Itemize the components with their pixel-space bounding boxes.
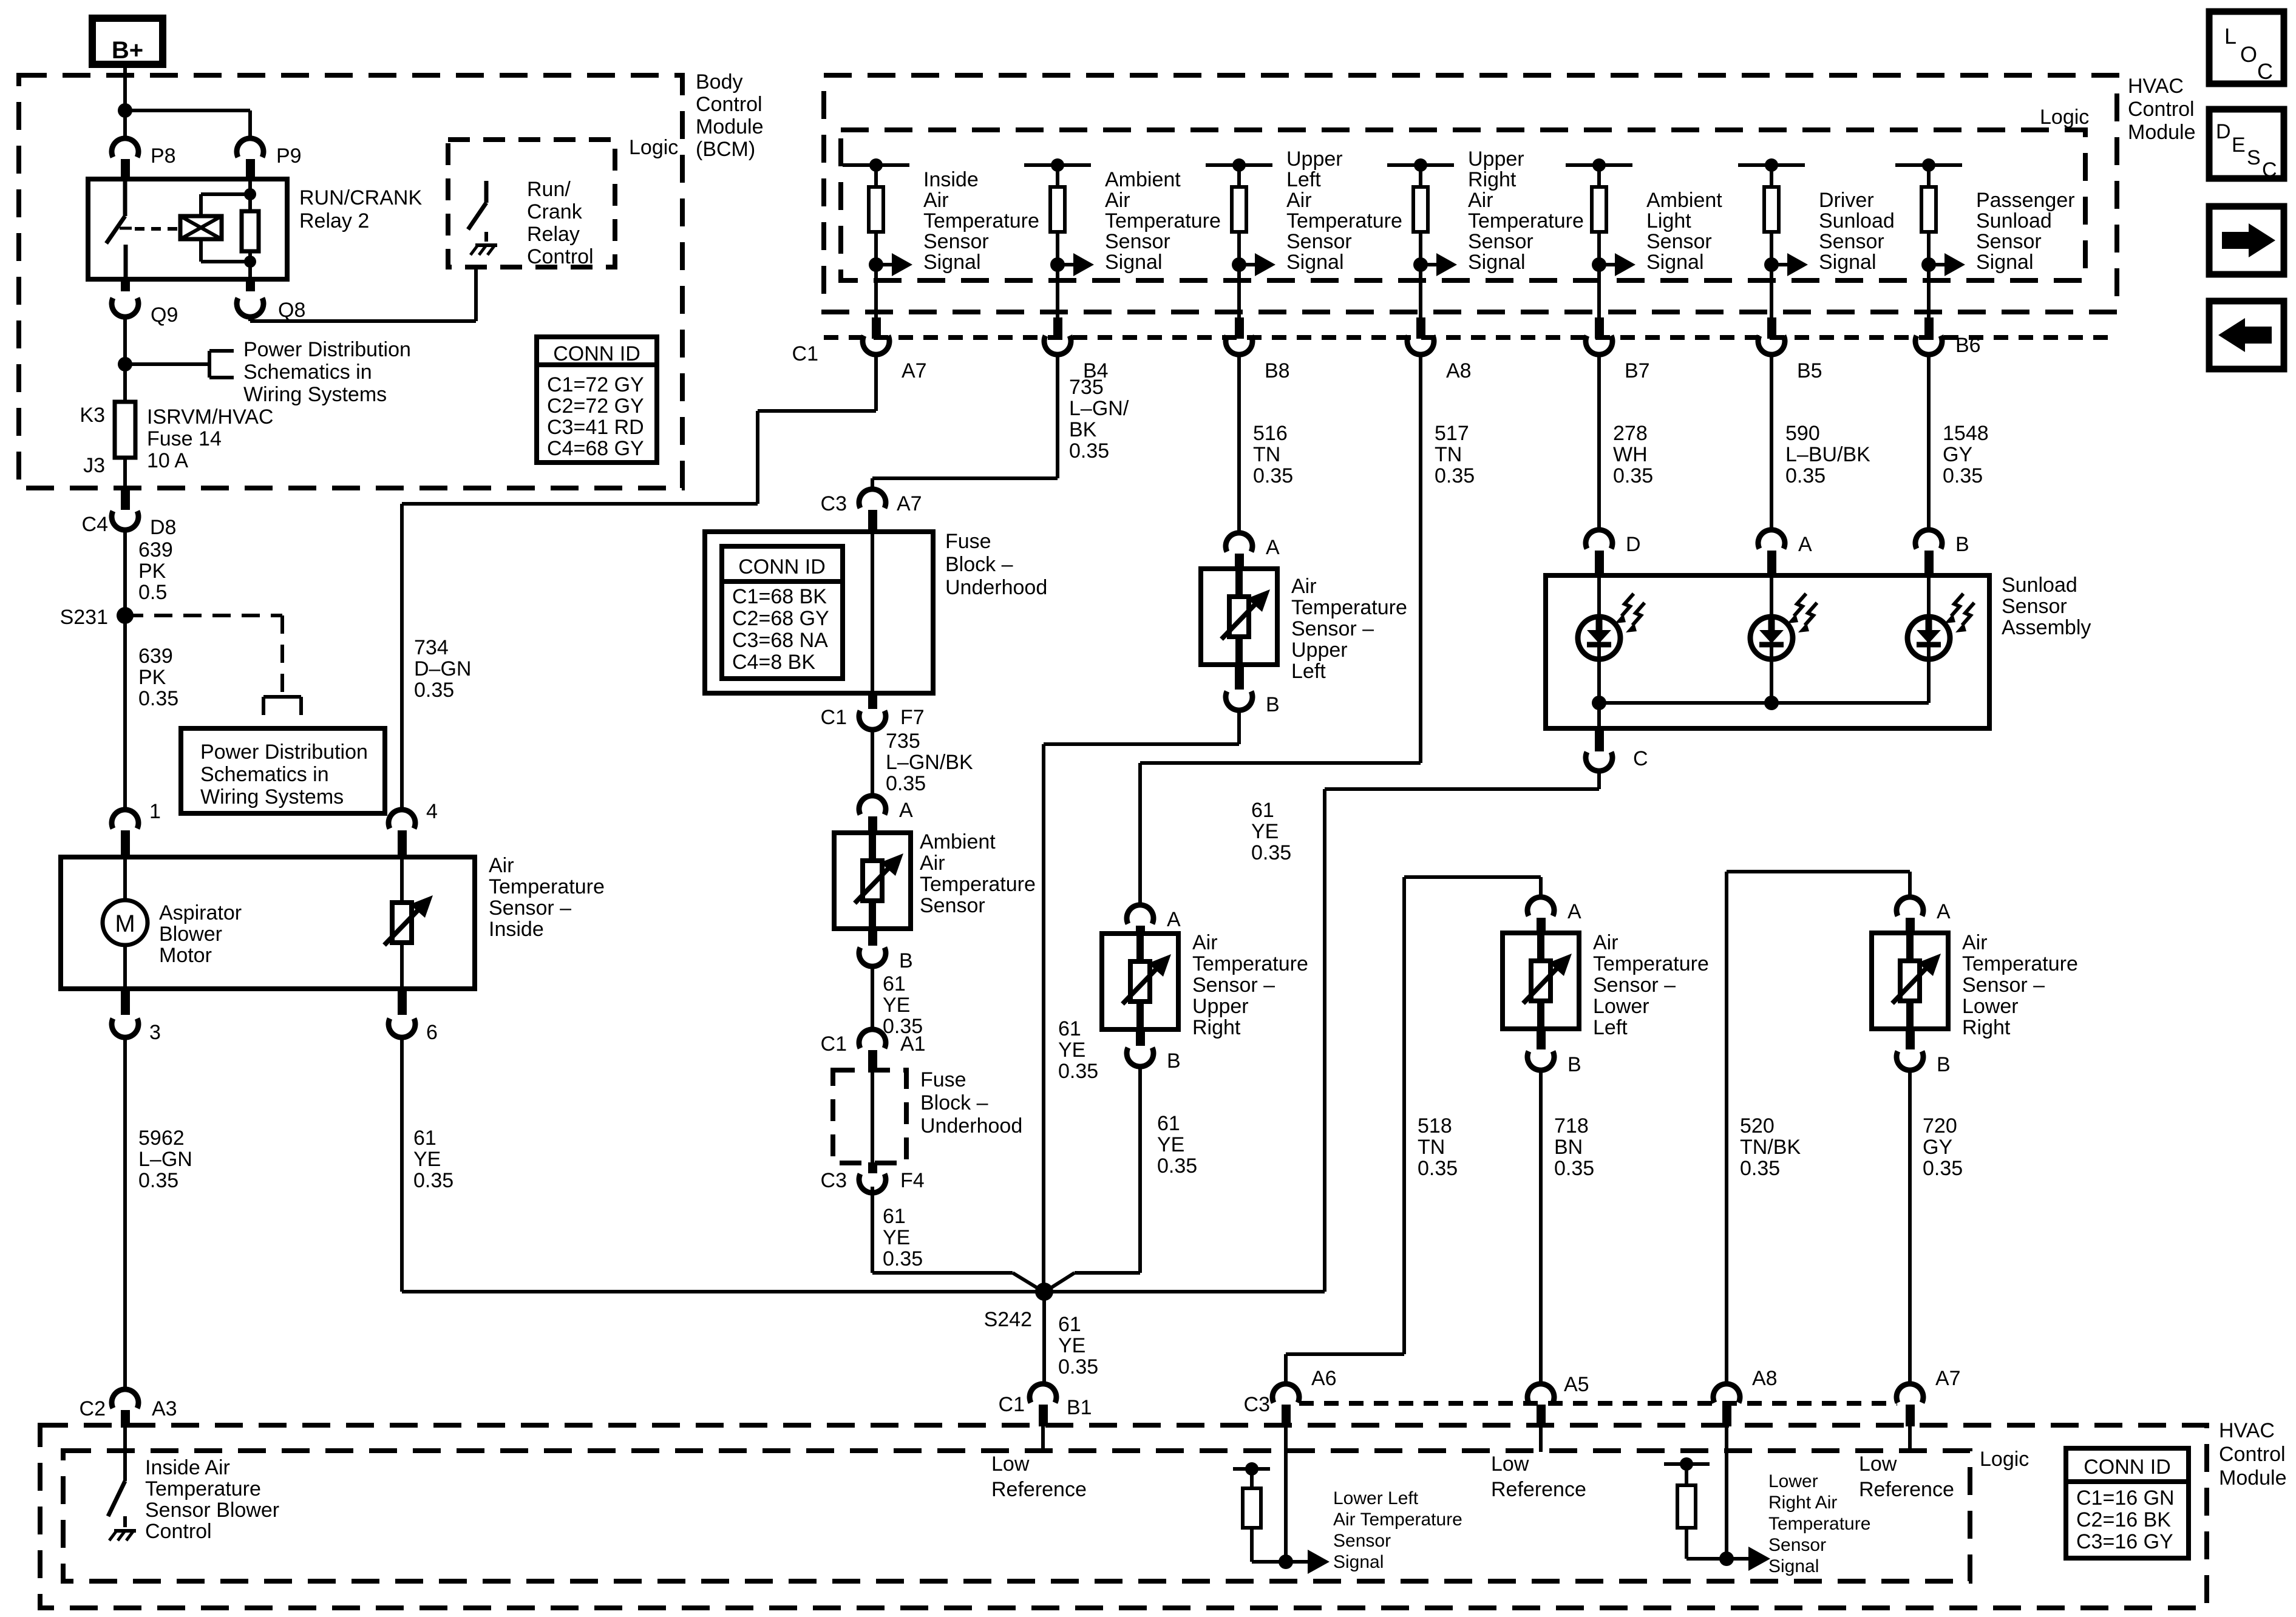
power symbol B+ <box>92 18 163 64</box>
box Aspirator Blower Motor / inside air temp sensor <box>61 857 475 989</box>
node coil top <box>244 188 256 200</box>
box Power Distribution Schematics in Wiring Systems <box>181 728 385 813</box>
svg-text:0.35: 0.35 <box>1157 1154 1197 1178</box>
node S231 <box>117 607 134 624</box>
photodiode A (driver sunload) <box>1770 577 1773 703</box>
connector A5 <box>1527 1384 1554 1403</box>
svg-text:516: 516 <box>1253 422 1288 445</box>
connector B lower-left <box>1537 1029 1546 1049</box>
node coil bottom <box>244 256 256 268</box>
svg-text:Signal: Signal <box>1768 1556 1819 1576</box>
connector A sunload <box>1758 530 1785 549</box>
svg-text:Module: Module <box>2219 1466 2287 1490</box>
svg-text:B7: B7 <box>1625 359 1650 382</box>
svg-text:Driver: Driver <box>1819 189 1874 212</box>
wire branch to P9 <box>125 109 250 112</box>
svg-text:C1=72 GY: C1=72 GY <box>547 373 644 396</box>
svg-text:518: 518 <box>1418 1114 1452 1137</box>
svg-text:B5: B5 <box>1797 359 1822 382</box>
svg-text:61: 61 <box>883 1205 906 1228</box>
HVAC logic dashed box (bottom) <box>63 1451 1970 1581</box>
svg-text:0.35: 0.35 <box>1418 1157 1458 1180</box>
connector B7 <box>1586 336 1612 354</box>
node S branch to power distribution note <box>118 357 132 371</box>
svg-text:B: B <box>1955 533 1969 556</box>
wire A7 into module <box>1908 1426 1912 1452</box>
svg-text:M: M <box>115 910 135 937</box>
svg-text:S242: S242 <box>984 1308 1032 1331</box>
svg-text:L–GN/: L–GN/ <box>1069 397 1129 420</box>
connector C1 A1 <box>859 1029 886 1048</box>
svg-text:Logic: Logic <box>1980 1448 2029 1471</box>
sensor input branch B8 <box>1206 163 1272 167</box>
svg-text:Sensor: Sensor <box>1976 230 2042 253</box>
relay K RUN/CRANK Relay 2 box <box>88 179 287 279</box>
svg-text:C2=68 GY: C2=68 GY <box>732 607 829 630</box>
svg-text:Left: Left <box>1593 1016 1628 1039</box>
svg-text:0.35: 0.35 <box>1785 464 1826 487</box>
svg-text:3: 3 <box>149 1021 161 1044</box>
connector B6 <box>1915 336 1942 354</box>
svg-text:Right: Right <box>1192 1016 1241 1039</box>
sensor input branch A7 <box>843 163 909 167</box>
svg-text:Fuse 14: Fuse 14 <box>147 427 222 450</box>
wire lower-left A to C3/A6 drop <box>1404 875 1541 879</box>
connector row (bottom) <box>1299 1401 1897 1406</box>
svg-text:Temperature: Temperature <box>1105 209 1221 232</box>
node cathode A <box>1764 696 1779 710</box>
arrow lower-left signal <box>1286 1560 1310 1564</box>
svg-text:TN: TN <box>1253 443 1280 466</box>
svg-text:TN: TN <box>1418 1136 1445 1159</box>
svg-text:J3: J3 <box>83 454 105 477</box>
wire A6 signal into module <box>1284 1426 1288 1562</box>
connector A8 <box>1407 336 1434 354</box>
svg-text:Schematics in: Schematics in <box>243 361 372 384</box>
button LOC <box>2209 12 2284 84</box>
switch Inside Air Temperature Sensor Blower Control <box>108 1481 125 1516</box>
svg-text:B8: B8 <box>1265 359 1290 382</box>
connector B upper-left <box>1235 665 1244 690</box>
svg-text:6: 6 <box>426 1021 438 1044</box>
svg-text:0.35: 0.35 <box>883 1247 923 1270</box>
svg-text:TN/BK: TN/BK <box>1740 1136 1801 1159</box>
connector C1 B1 <box>1030 1384 1056 1403</box>
svg-text:B: B <box>1167 1049 1181 1073</box>
svg-text:Reference: Reference <box>1491 1478 1586 1501</box>
svg-text:Temperature: Temperature <box>489 875 605 898</box>
svg-text:61: 61 <box>1157 1112 1180 1135</box>
svg-text:Signal: Signal <box>1333 1552 1384 1572</box>
connector pin 4 <box>389 810 415 829</box>
svg-text:639: 639 <box>138 645 173 668</box>
svg-text:10 A: 10 A <box>147 449 188 472</box>
svg-text:C3: C3 <box>821 492 847 515</box>
svg-text:0.35: 0.35 <box>1058 1060 1098 1083</box>
svg-text:F4: F4 <box>900 1169 925 1192</box>
svg-text:Signal: Signal <box>1468 251 1526 274</box>
svg-text:Left: Left <box>1291 660 1326 683</box>
svg-text:F7: F7 <box>900 706 925 729</box>
svg-text:C: C <box>2262 158 2277 181</box>
svg-text:Left: Left <box>1286 168 1321 191</box>
svg-text:GY: GY <box>1943 443 1972 466</box>
svg-text:590: 590 <box>1785 422 1820 445</box>
box Air Temperature Sensor - Lower Right with thermistor <box>1872 933 1948 1029</box>
table CONN ID (BCM) <box>537 337 657 463</box>
svg-text:Control: Control <box>2219 1443 2286 1466</box>
svg-text:Module: Module <box>696 115 764 138</box>
relay coil <box>180 216 222 239</box>
svg-text:E: E <box>2232 134 2246 157</box>
wire S242 to C1 B1 <box>1042 1292 1046 1383</box>
resistor relay internal <box>242 211 259 251</box>
wire B7 to sunload D <box>1597 356 1601 529</box>
svg-text:Sensor –: Sensor – <box>1962 974 2045 997</box>
svg-text:Passenger: Passenger <box>1976 189 2075 212</box>
node S242 <box>1035 1283 1053 1301</box>
svg-text:Temperature: Temperature <box>145 1477 261 1500</box>
svg-text:K3: K3 <box>80 404 105 427</box>
svg-text:D–GN: D–GN <box>414 657 471 680</box>
wire F4 to S242 <box>871 1187 874 1273</box>
reference bracket S231 <box>263 695 301 699</box>
wire through lower fuse block <box>871 1071 874 1162</box>
sensor input branch B4 <box>1024 163 1091 167</box>
svg-text:Ambient: Ambient <box>1105 168 1181 191</box>
svg-text:Underhood: Underhood <box>945 576 1047 599</box>
svg-text:0.35: 0.35 <box>1058 1355 1098 1378</box>
connector B5 <box>1758 336 1785 354</box>
node lower-left signal <box>1279 1554 1293 1569</box>
svg-text:GY: GY <box>1923 1136 1952 1159</box>
svg-text:0.35: 0.35 <box>1554 1157 1594 1180</box>
wire S231 to pin 1 <box>123 615 127 810</box>
wire F7 to ambient sensor A <box>871 731 874 795</box>
svg-text:CONN ID: CONN ID <box>553 342 640 365</box>
wire sunload C to S242 <box>1597 772 1601 789</box>
svg-text:734: 734 <box>414 636 449 659</box>
svg-text:Sensor –: Sensor – <box>1593 974 1676 997</box>
svg-text:0.35: 0.35 <box>886 772 926 795</box>
thermistor inside air temperature sensor <box>400 857 404 989</box>
svg-text:RUN/CRANK: RUN/CRANK <box>299 186 422 209</box>
svg-text:B: B <box>1937 1053 1951 1076</box>
svg-text:Upper: Upper <box>1468 147 1524 171</box>
wire C4 to S231 <box>123 531 127 619</box>
svg-text:Sensor: Sensor <box>923 230 989 253</box>
wire A7 inside-air signal to sensor pin 4 <box>874 356 878 411</box>
svg-text:Air: Air <box>923 189 949 212</box>
svg-text:Block –: Block – <box>920 1091 988 1114</box>
svg-text:C3: C3 <box>821 1169 847 1192</box>
wire label 516 already above; connector A upper-left <box>1226 533 1252 552</box>
svg-text:HVAC: HVAC <box>2128 75 2184 98</box>
svg-text:61: 61 <box>413 1127 436 1150</box>
svg-text:Sensor: Sensor <box>1468 230 1533 253</box>
connector C4 D8 <box>112 511 138 530</box>
svg-text:Lower Left: Lower Left <box>1333 1488 1419 1508</box>
connector B8 <box>1226 336 1252 354</box>
svg-text:Temperature: Temperature <box>923 209 1039 232</box>
svg-text:Control: Control <box>2128 98 2195 121</box>
svg-text:61: 61 <box>1058 1313 1081 1336</box>
svg-text:BK: BK <box>1069 418 1097 441</box>
wire common cathode <box>1599 701 1929 705</box>
svg-text:ISRVM/HVAC: ISRVM/HVAC <box>147 405 273 429</box>
connector A upper-right <box>1127 905 1153 924</box>
svg-text:CONN ID: CONN ID <box>2084 1456 2171 1479</box>
svg-text:CONN ID: CONN ID <box>738 555 826 578</box>
svg-text:Right Air: Right Air <box>1768 1493 1837 1513</box>
svg-text:Sunload: Sunload <box>1976 209 2052 232</box>
wire A8 to connector <box>1419 265 1422 317</box>
switch Run/Crank relay control <box>484 181 489 203</box>
svg-text:Lower: Lower <box>1593 995 1649 1018</box>
svg-text:YE: YE <box>1251 820 1279 843</box>
wire B+ to P8 <box>123 64 127 137</box>
wire B8 to upper-left sensor <box>1237 356 1241 532</box>
wire B6 to connector <box>1927 265 1931 317</box>
svg-text:C: C <box>2257 59 2273 84</box>
svg-text:Upper: Upper <box>1291 639 1348 662</box>
svg-text:61: 61 <box>883 972 906 995</box>
svg-text:Blower: Blower <box>159 923 222 946</box>
svg-text:TN: TN <box>1435 443 1462 466</box>
svg-text:Air: Air <box>1593 931 1618 954</box>
connector B lower-right <box>1906 1029 1915 1049</box>
svg-text:0.35: 0.35 <box>138 687 178 710</box>
wire lower-right B to A7 <box>1908 1071 1912 1383</box>
photodiode D (ambient light) <box>1597 577 1601 703</box>
svg-text:Right: Right <box>1962 1016 2011 1039</box>
svg-text:Lower: Lower <box>1768 1471 1818 1491</box>
svg-text:A7: A7 <box>1935 1367 1961 1390</box>
connector A lower-right <box>1897 897 1923 916</box>
svg-text:Air: Air <box>1105 189 1130 212</box>
svg-text:Power Distribution: Power Distribution <box>243 338 411 361</box>
svg-text:B+: B+ <box>112 37 143 64</box>
svg-text:C3: C3 <box>1244 1393 1270 1416</box>
svg-text:PK: PK <box>138 666 166 689</box>
svg-text:Crank: Crank <box>527 200 583 223</box>
svg-text:Signal: Signal <box>1286 251 1344 274</box>
svg-text:YE: YE <box>1058 1039 1085 1062</box>
svg-text:0.35: 0.35 <box>414 679 454 702</box>
node cathode D <box>1592 696 1606 710</box>
svg-text:A: A <box>1937 900 1951 923</box>
sensor input branch B7 <box>1566 163 1632 167</box>
svg-text:C4: C4 <box>82 513 108 536</box>
svg-text:Sensor –: Sensor – <box>1192 974 1275 997</box>
wire lower-right sensor branch <box>1908 872 1912 897</box>
svg-text:Temperature: Temperature <box>1468 209 1584 232</box>
button back arrow <box>2209 301 2284 369</box>
connector C3 F4 <box>868 1162 877 1173</box>
svg-text:YE: YE <box>883 994 910 1017</box>
svg-text:Air: Air <box>920 852 945 875</box>
wire B4 to connector <box>1056 265 1059 317</box>
svg-text:Underhood: Underhood <box>920 1114 1022 1137</box>
svg-text:C1: C1 <box>821 1032 847 1056</box>
svg-text:0.35: 0.35 <box>1435 464 1475 487</box>
svg-text:Fuse: Fuse <box>945 530 991 553</box>
svg-text:Sensor –: Sensor – <box>1291 617 1374 640</box>
svg-text:Inside: Inside <box>489 918 544 941</box>
connector Q9 <box>121 279 130 291</box>
wire A7 to connector <box>874 265 878 317</box>
table CONN ID (fuse block) <box>722 546 843 679</box>
box Air Temperature Sensor - Lower Left with thermistor <box>1503 933 1579 1029</box>
svg-text:Control: Control <box>145 1520 212 1543</box>
svg-text:Control: Control <box>696 93 763 116</box>
svg-text:Body: Body <box>696 70 743 93</box>
svg-text:Sensor Blower: Sensor Blower <box>145 1499 279 1522</box>
svg-text:C: C <box>1633 747 1648 770</box>
relay switch contact <box>123 179 127 216</box>
svg-text:Temperature: Temperature <box>1192 952 1308 975</box>
connector C3 A7 (fuse block) <box>859 489 886 508</box>
svg-text:C1=68 BK: C1=68 BK <box>732 585 827 608</box>
svg-text:0.35: 0.35 <box>1253 464 1293 487</box>
connector D sunload <box>1586 530 1612 549</box>
svg-text:BN: BN <box>1554 1136 1583 1159</box>
svg-text:0.5: 0.5 <box>138 581 167 604</box>
connector A8 (bottom) <box>1713 1384 1740 1403</box>
svg-text:C2=72 GY: C2=72 GY <box>547 395 644 418</box>
HVAC control module dashed box (bottom) <box>40 1425 2207 1608</box>
svg-text:Signal: Signal <box>923 251 981 274</box>
svg-text:YE: YE <box>413 1148 441 1171</box>
svg-text:Air Temperature: Air Temperature <box>1333 1510 1462 1530</box>
logic dashed box Run/Crank Relay Control <box>448 140 615 267</box>
box Air Temperature Sensor - Upper Left with thermistor <box>1201 569 1277 665</box>
svg-text:0.35: 0.35 <box>1943 464 1983 487</box>
svg-text:Aspirator: Aspirator <box>159 901 242 924</box>
svg-text:WH: WH <box>1613 443 1648 466</box>
svg-text:Inside Air: Inside Air <box>145 1456 230 1479</box>
svg-text:A: A <box>1167 908 1181 931</box>
wire A3 into module <box>123 1428 127 1481</box>
svg-text:Light: Light <box>1646 209 1691 232</box>
relay actuator dashed link <box>135 227 180 231</box>
svg-text:YE: YE <box>1058 1334 1085 1357</box>
connector C3 A6 <box>1272 1384 1299 1403</box>
svg-text:C4=8 BK: C4=8 BK <box>732 651 815 674</box>
svg-text:Run/: Run/ <box>527 178 571 201</box>
wire A8 to upper-right sensor <box>1419 356 1422 763</box>
svg-text:Sensor: Sensor <box>1768 1535 1826 1555</box>
svg-text:61: 61 <box>1058 1017 1081 1040</box>
svg-text:B: B <box>1567 1053 1581 1076</box>
wire dashed S231 reference <box>125 614 282 617</box>
svg-text:Air: Air <box>1286 189 1312 212</box>
svg-text:0.35: 0.35 <box>1613 464 1653 487</box>
svg-text:Low: Low <box>1491 1453 1529 1476</box>
svg-text:C1: C1 <box>792 342 818 365</box>
motor M Aspirator Blower Motor <box>103 900 148 945</box>
svg-text:61: 61 <box>1251 799 1274 822</box>
svg-text:Temperature: Temperature <box>1286 209 1402 232</box>
box Air Temperature Sensor - Upper Right with thermistor <box>1102 934 1178 1029</box>
svg-text:5962: 5962 <box>138 1127 185 1150</box>
svg-text:HVAC: HVAC <box>2219 1419 2275 1442</box>
connector C2 A3 <box>112 1389 138 1408</box>
connector A lower-left <box>1527 897 1554 916</box>
svg-text:Logic: Logic <box>2040 106 2089 129</box>
svg-text:Relay 2: Relay 2 <box>299 209 369 232</box>
svg-text:A5: A5 <box>1564 1373 1589 1396</box>
svg-text:Sensor: Sensor <box>1333 1531 1391 1551</box>
svg-text:520: 520 <box>1740 1114 1775 1137</box>
wire P9 through relay <box>248 179 252 279</box>
svg-text:1: 1 <box>149 800 161 823</box>
wire B7 to connector <box>1597 265 1601 317</box>
connector pin 1 <box>112 810 138 829</box>
wire 734 branch down to pin 4 <box>400 504 404 810</box>
wire Q8 to logic box <box>248 318 252 321</box>
svg-text:L–GN: L–GN <box>138 1148 192 1171</box>
connector B upper-right <box>1136 1029 1145 1046</box>
svg-text:Wiring Systems: Wiring Systems <box>243 383 387 406</box>
connector B sunload <box>1915 530 1942 549</box>
wire B1 into module <box>1041 1426 1045 1452</box>
svg-text:Ambient: Ambient <box>920 830 996 853</box>
svg-text:C3=16 GY: C3=16 GY <box>2076 1530 2173 1553</box>
wire B5 to connector <box>1770 265 1773 317</box>
wire B5 to sunload A <box>1770 356 1773 529</box>
svg-text:Temperature: Temperature <box>1962 952 2078 975</box>
svg-text:D: D <box>2216 120 2231 143</box>
ground chassis blower control <box>114 1529 136 1533</box>
svg-text:A1: A1 <box>900 1032 926 1056</box>
svg-text:Schematics in: Schematics in <box>200 763 329 786</box>
svg-text:A: A <box>899 799 913 822</box>
svg-text:P9: P9 <box>276 144 302 168</box>
svg-text:Power Distribution: Power Distribution <box>200 741 368 764</box>
svg-text:L–BU/BK: L–BU/BK <box>1785 443 1870 466</box>
svg-text:A: A <box>1567 900 1581 923</box>
BCM dashed box <box>19 75 682 488</box>
wire A5 into module <box>1539 1426 1543 1452</box>
svg-text:C2=16 BK: C2=16 BK <box>2076 1508 2171 1531</box>
connector B (ambient air temp sensor) <box>868 929 877 946</box>
wire B4 to fuse block <box>1056 356 1059 478</box>
connector pin 6 <box>398 988 407 1015</box>
wire upper-right B to S242 <box>1138 1068 1142 1273</box>
svg-text:Signal: Signal <box>1646 251 1704 274</box>
svg-text:Air: Air <box>1291 575 1317 598</box>
svg-text:D: D <box>1626 533 1641 556</box>
svg-text:639: 639 <box>138 538 173 561</box>
svg-text:S231: S231 <box>60 606 108 629</box>
svg-text:Q8: Q8 <box>278 299 305 322</box>
svg-text:Sensor: Sensor <box>1819 230 1884 253</box>
svg-text:735: 735 <box>1069 376 1104 399</box>
svg-text:C3=41 RD: C3=41 RD <box>547 416 644 439</box>
svg-text:D8: D8 <box>150 516 176 539</box>
svg-text:Air: Air <box>489 854 514 877</box>
wire sunload common to C <box>1597 703 1601 728</box>
connector C1 F7 <box>868 692 877 709</box>
wire Q9 down to fuse <box>123 318 127 402</box>
svg-text:Sunload: Sunload <box>1819 209 1895 232</box>
svg-text:Sunload: Sunload <box>2002 574 2077 597</box>
connector A7 (bottom) <box>1897 1384 1923 1403</box>
svg-text:Sensor: Sensor <box>2002 595 2067 618</box>
svg-text:Upper: Upper <box>1286 147 1343 171</box>
table CONN ID (bottom) <box>2066 1448 2189 1558</box>
